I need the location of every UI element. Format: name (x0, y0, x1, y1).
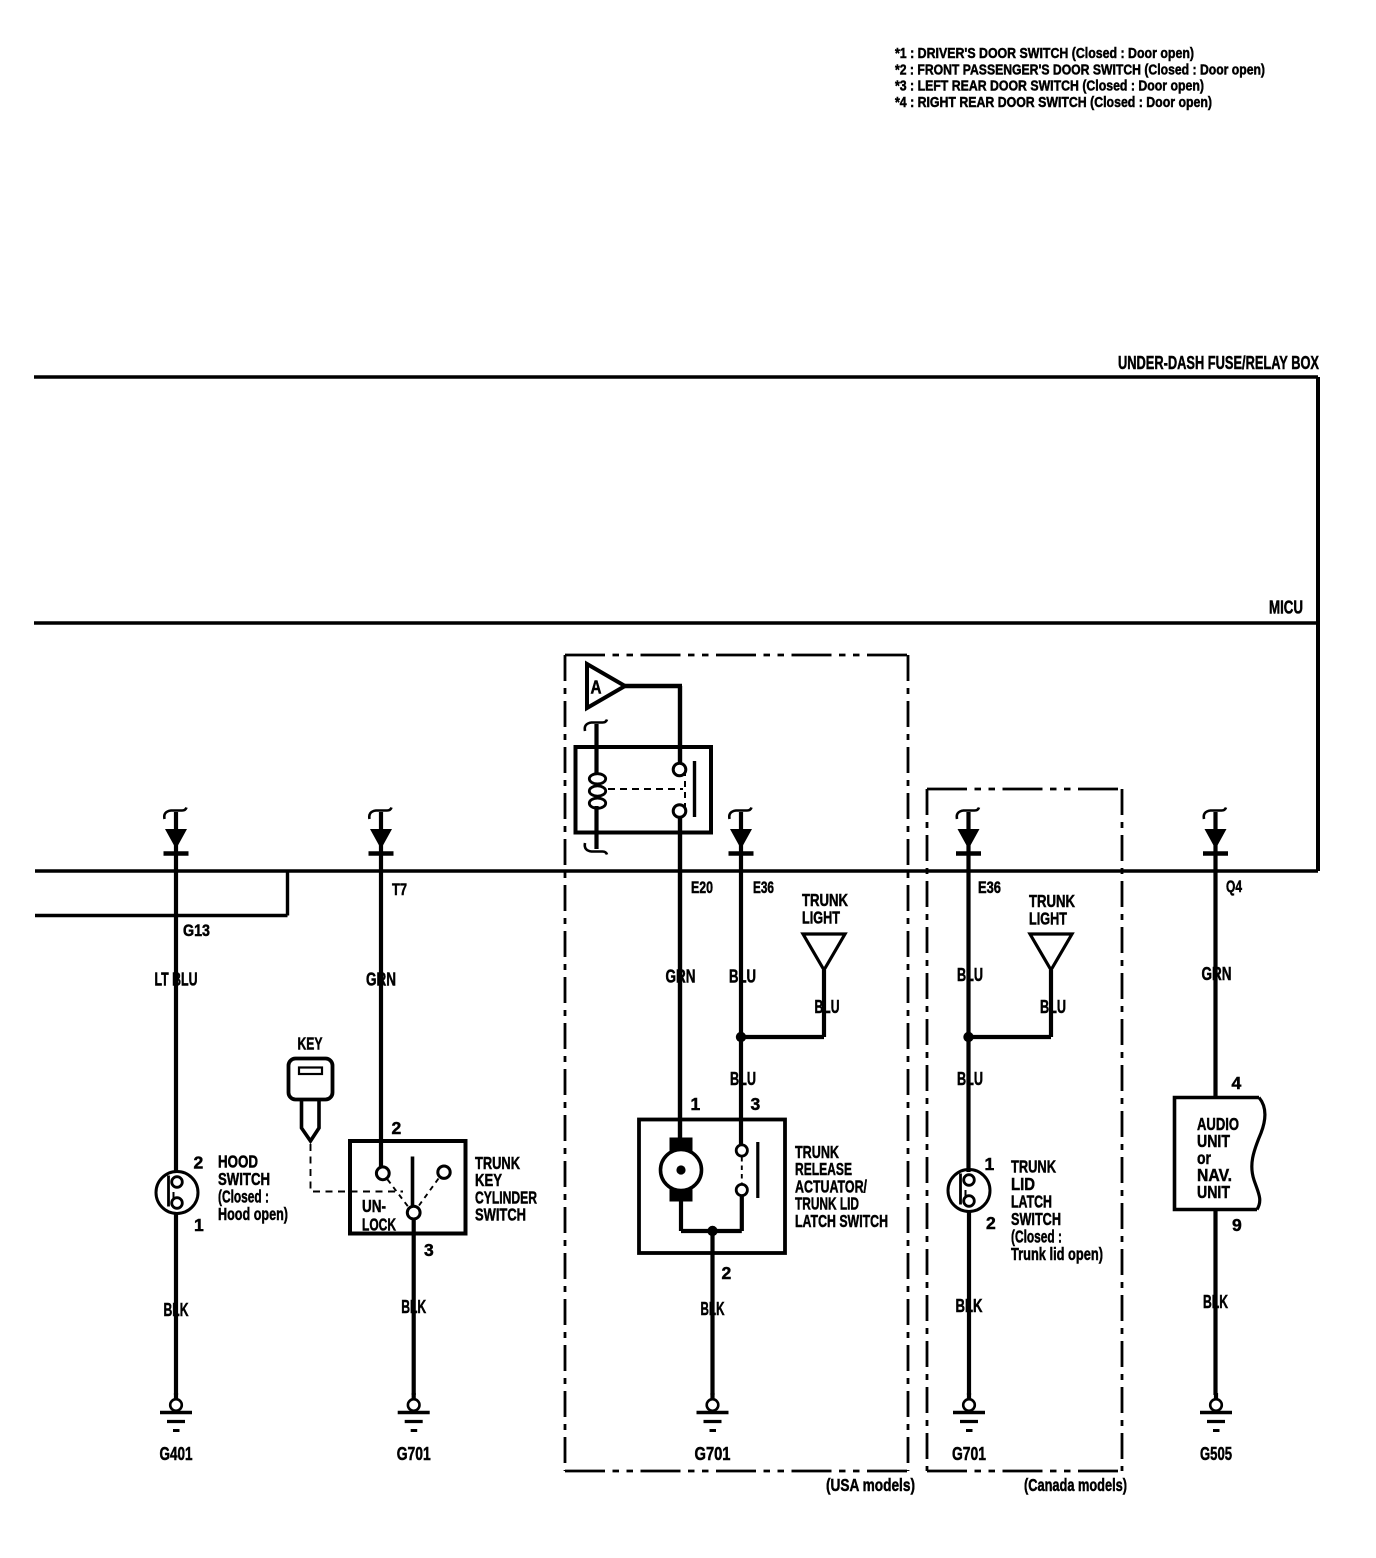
label HOOD SWITCH (218, 1152, 288, 1225)
svg-text:BLU: BLU (815, 997, 840, 1017)
label UNDER-DASH FUSE/RELAY BOX (1118, 352, 1319, 373)
label (USA models) (826, 1475, 915, 1495)
diode at MICU output G13 (164, 808, 189, 872)
relay coil feed hook (585, 720, 607, 776)
svg-text:3: 3 (424, 1240, 434, 1260)
svg-text:*4 : RIGHT REAR DOOR SWITCH (C: *4 : RIGHT REAR DOOR SWITCH (Closed : Do… (895, 95, 1212, 111)
svg-text:A: A (591, 678, 602, 698)
dashed mechanical link from key to switch (311, 1144, 404, 1192)
svg-text:GRN: GRN (1202, 964, 1232, 984)
USA models dashed enclosure (565, 655, 908, 1471)
svg-text:(USA models): (USA models) (826, 1475, 915, 1495)
svg-text:BLU: BLU (1040, 997, 1066, 1017)
wire BLK latch switch to ground (967, 1212, 971, 1396)
trunk release actuator motor M (661, 1138, 702, 1202)
wire color label BLU (trunk light USA) (815, 997, 840, 1017)
svg-text:T7: T7 (392, 881, 407, 899)
wire color label LT BLU (155, 970, 198, 990)
trunk light lamp symbol (USA) (803, 934, 845, 970)
svg-text:*2 : FRONT PASSENGER'S DOOR SW: *2 : FRONT PASSENGER'S DOOR SWITCH (Clos… (895, 62, 1265, 78)
audio unit / nav unit box (1175, 1098, 1265, 1210)
svg-text:MICU: MICU (1269, 598, 1303, 618)
KEY symbol (289, 1034, 333, 1142)
svg-text:LT BLU: LT BLU (155, 970, 198, 990)
wire color label BLK (key cylinder) (401, 1297, 426, 1317)
svg-text:Hood open): Hood open) (218, 1204, 288, 1224)
trunk lid latch switch (Canada) (948, 1170, 990, 1212)
connector label E36 (Canada) (978, 879, 1001, 897)
relay coil (589, 774, 605, 849)
pin 2 of trunk release actuator (722, 1263, 732, 1283)
connector label G13 (183, 922, 210, 940)
label TRUNK LID LATCH SWITCH (Closed : Trunk lid open) (1011, 1157, 1103, 1265)
svg-text:BLK: BLK (1203, 1292, 1228, 1312)
wire from connector A to relay contact (623, 686, 682, 764)
wire junction trunk light to latch wire (Canada) (963, 1032, 1051, 1042)
pin 1 of hood switch (194, 1215, 204, 1235)
wire GRN trunk key cylinder branch (379, 871, 383, 1167)
svg-text:BLU: BLU (957, 1069, 983, 1089)
svg-text:G13: G13 (183, 922, 210, 940)
wire BLU from trunk light (USA) (822, 970, 826, 1037)
svg-text:BLU: BLU (730, 1069, 756, 1089)
wire BLK key cylinder to ground (412, 1219, 416, 1395)
pin 4 of audio unit (1232, 1073, 1242, 1093)
diode at MICU output E36 (USA) (729, 808, 754, 872)
svg-text:G505: G505 (1200, 1444, 1232, 1464)
svg-text:GRN: GRN (666, 967, 696, 987)
svg-text:G701: G701 (397, 1444, 431, 1464)
MICU internal bus line (34, 621, 1318, 625)
wire BLK audio unit to ground (1213, 1210, 1217, 1396)
pin 9 of audio unit (1232, 1215, 1242, 1235)
svg-text:LIGHT: LIGHT (1029, 909, 1067, 929)
wire color label BLU (E36 upper) (729, 967, 756, 987)
pin 3 of trunk release actuator (751, 1094, 761, 1114)
svg-text:LOCK: LOCK (362, 1215, 396, 1235)
svg-text:2: 2 (194, 1153, 204, 1173)
trunk release actuator box (639, 1120, 785, 1254)
wire BLK actuator to ground (710, 1231, 714, 1395)
svg-text:2: 2 (986, 1213, 996, 1233)
svg-text:UNIT: UNIT (1197, 1182, 1230, 1202)
ground G401 (160, 1393, 193, 1464)
wire color label BLK (latch switch) (956, 1296, 983, 1316)
pin 2 of trunk lid latch switch (986, 1213, 996, 1233)
relay contacts (608, 761, 695, 817)
relay coil ground hook (585, 843, 607, 855)
svg-text:4: 4 (1232, 1073, 1242, 1093)
svg-text:KEY: KEY (298, 1034, 323, 1054)
pin 2 of trunk key cylinder switch (392, 1118, 402, 1138)
wire color label GRN (E20) (666, 967, 696, 987)
connector label Q4 (1226, 878, 1243, 896)
wire color label BLU (E36 Canada upper) (957, 965, 983, 985)
connector label T7 (392, 881, 407, 899)
wire color label BLU (trunk light Canada) (1040, 997, 1066, 1017)
wire color label BLU (below junction Canada) (957, 1069, 983, 1089)
svg-text:E36: E36 (978, 879, 1001, 897)
svg-text:Trunk lid open): Trunk lid open) (1011, 1244, 1103, 1264)
hood switch S1 (156, 1172, 198, 1214)
svg-text:BLK: BLK (956, 1296, 983, 1316)
trunk light lamp symbol (Canada) (1030, 934, 1072, 970)
svg-text:G701: G701 (695, 1444, 731, 1464)
wire BLU trunk lid latch (E36 USA) (739, 871, 743, 1146)
ground G701 (Canada) (952, 1393, 986, 1464)
trunk lid latch switch contacts (USA) (736, 1142, 758, 1198)
svg-text:LIGHT: LIGHT (802, 908, 840, 928)
label (Canada models) (1024, 1475, 1127, 1495)
label UN-LOCK (362, 1196, 396, 1235)
wire color label BLK (audio) (1203, 1292, 1228, 1312)
wire junction trunk light to latch wire (USA) (736, 1032, 824, 1042)
relay (trunk release) box (576, 747, 712, 833)
svg-text:G401: G401 (160, 1444, 193, 1464)
wire color label GRN (audio) (1202, 964, 1232, 984)
wire color label BLU (below junction USA) (730, 1069, 756, 1089)
svg-text:UNDER-DASH FUSE/RELAY BOX: UNDER-DASH FUSE/RELAY BOX (1118, 352, 1319, 373)
svg-text:UN-: UN- (362, 1196, 386, 1216)
trunk key cylinder switch contacts (376, 1157, 450, 1220)
svg-text:(Canada models): (Canada models) (1024, 1475, 1127, 1495)
under-dash fuse/relay box outline (34, 377, 1318, 916)
wire color label BLK (hood switch) (164, 1300, 189, 1320)
wire BLU from trunk light (Canada) (1049, 970, 1053, 1037)
svg-text:1: 1 (194, 1215, 204, 1235)
connector A (triangle) (587, 664, 625, 708)
svg-text:GRN: GRN (366, 970, 396, 990)
label TRUNK LIGHT (Canada) (1029, 891, 1075, 929)
label TRUNK KEY CYLINDER SWITCH (475, 1153, 537, 1225)
ground G701 (key cylinder) (397, 1393, 431, 1464)
label TRUNK RELEASE ACTUATOR / TRUNK LID LATCH SWITCH (795, 1142, 888, 1231)
svg-text:LATCH SWITCH: LATCH SWITCH (795, 1211, 888, 1231)
svg-text:G701: G701 (952, 1444, 986, 1464)
diode at MICU output T7 (369, 808, 394, 872)
svg-text:SWITCH: SWITCH (475, 1205, 526, 1225)
svg-text:BLU: BLU (729, 967, 756, 987)
Canada models dashed enclosure (927, 789, 1122, 1471)
svg-text:9: 9 (1232, 1215, 1242, 1235)
diode at MICU output Q4 (1203, 808, 1228, 872)
svg-text:E36: E36 (753, 879, 774, 897)
label MICU (1269, 598, 1303, 618)
connector label E36 (USA) (753, 879, 774, 897)
svg-text:BLK: BLK (701, 1299, 725, 1319)
diode at MICU output E36 (Canada) (956, 808, 981, 872)
wire color label GRN (key cylinder) (366, 970, 396, 990)
wire BLK hood switch to ground (174, 1214, 178, 1396)
svg-text:Q4: Q4 (1226, 878, 1243, 896)
label TRUNK LIGHT (USA) (802, 890, 848, 928)
svg-text:2: 2 (392, 1118, 402, 1138)
svg-text:E20: E20 (691, 879, 713, 897)
ground G701 (USA) (695, 1393, 731, 1464)
svg-text:2: 2 (722, 1263, 732, 1283)
wire BLU trunk lid latch (E36 Canada) (966, 871, 970, 1172)
ground G505 (1200, 1393, 1232, 1464)
pin 3 of trunk key cylinder switch (424, 1240, 434, 1260)
svg-text:1: 1 (985, 1154, 995, 1174)
svg-text:1: 1 (691, 1094, 701, 1114)
wire GRN audio unit branch (Q4) (1213, 871, 1217, 1097)
svg-text:BLU: BLU (957, 965, 983, 985)
label AUDIO UNIT or NAV. UNIT (1197, 1114, 1239, 1202)
note: door switch legend (895, 46, 1265, 111)
connector label E20 (691, 879, 713, 897)
wire LT BLU hood switch branch (174, 871, 178, 1172)
svg-text:BLK: BLK (401, 1297, 426, 1317)
svg-text:3: 3 (751, 1094, 761, 1114)
wire color label BLK (actuator) (701, 1299, 725, 1319)
pin 1 of trunk release actuator (691, 1094, 701, 1114)
svg-text:*3 : LEFT REAR DOOR SWITCH (Cl: *3 : LEFT REAR DOOR SWITCH (Closed : Doo… (895, 79, 1204, 95)
svg-text:*1 : DRIVER'S DOOR SWITCH (Clo: *1 : DRIVER'S DOOR SWITCH (Closed : Door… (895, 46, 1194, 62)
pin 1 of trunk lid latch switch (985, 1154, 995, 1174)
trunk key cylinder switch box (350, 1141, 466, 1234)
svg-text:BLK: BLK (164, 1300, 189, 1320)
actuator internal ground link (681, 1195, 742, 1236)
wire GRN relay to actuator (E20) (678, 817, 682, 1140)
pin 2 of hood switch (194, 1153, 204, 1173)
